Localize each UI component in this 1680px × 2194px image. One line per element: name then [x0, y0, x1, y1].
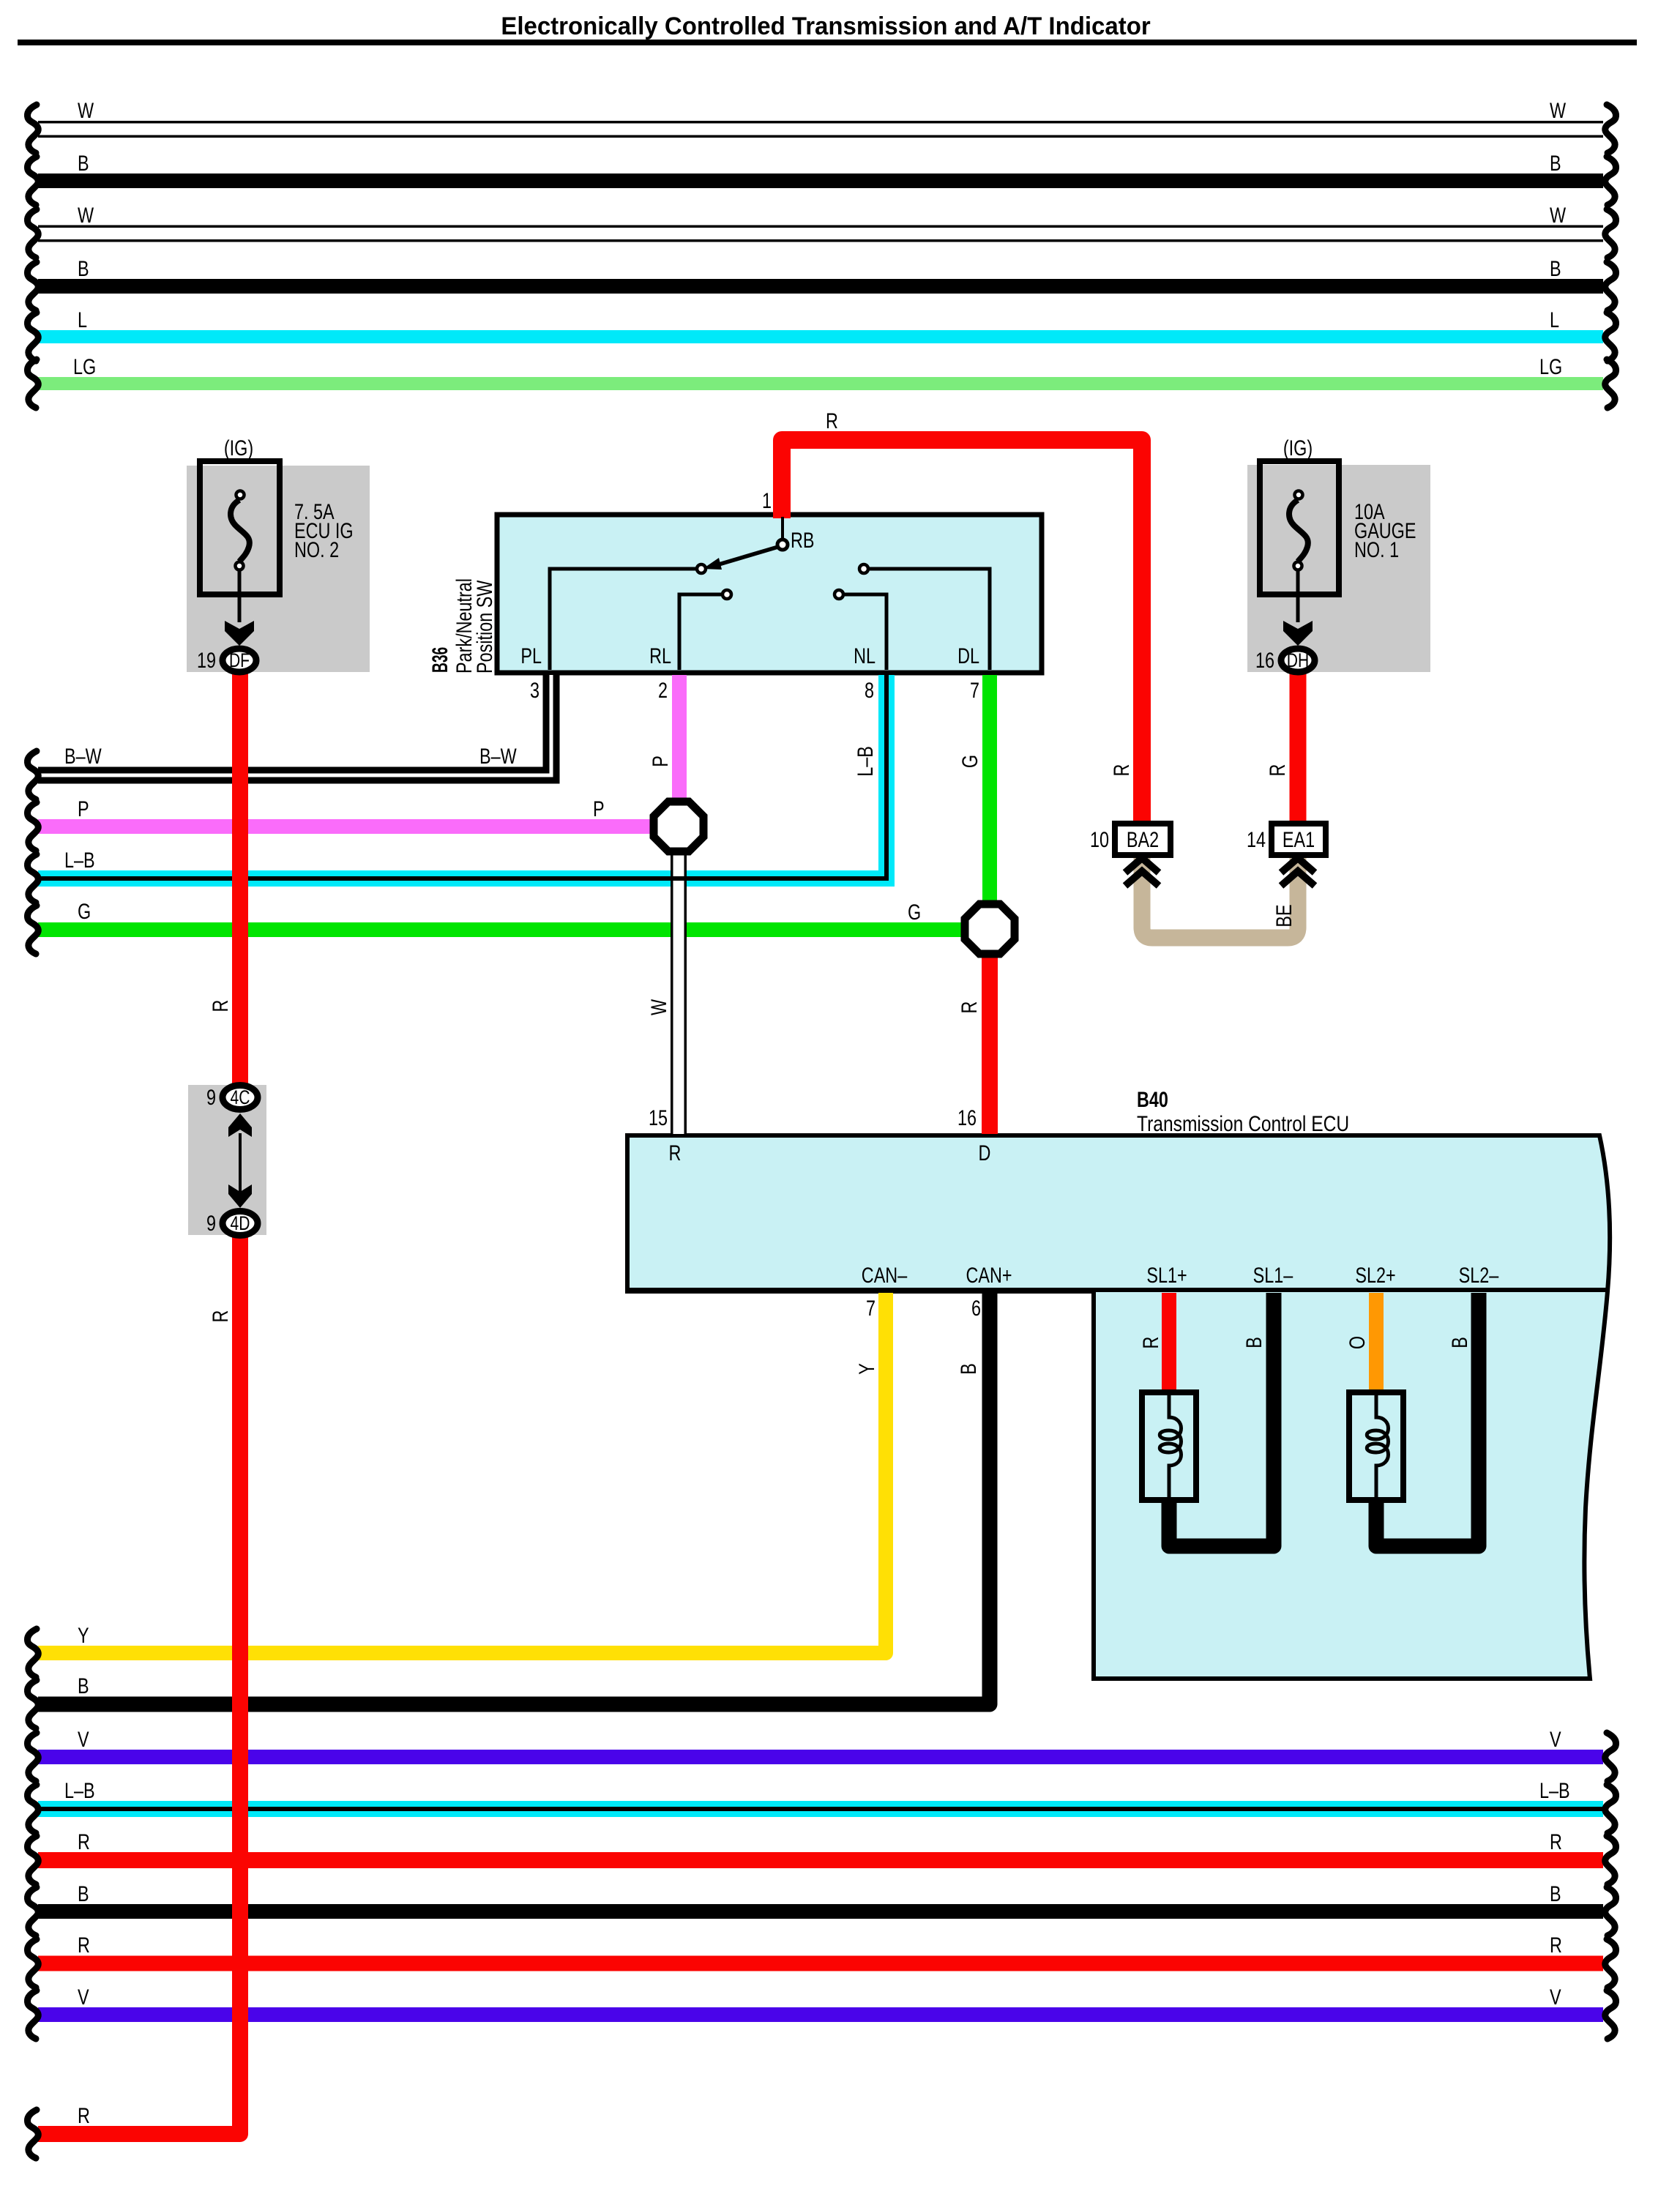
- svg-text:CAN+: CAN+: [966, 1263, 1012, 1287]
- svg-text:W: W: [78, 98, 94, 122]
- svg-text:R: R: [1550, 1933, 1562, 1957]
- svg-text:L–B: L–B: [853, 746, 877, 777]
- svg-text:V: V: [78, 1727, 89, 1751]
- svg-text:19: 19: [197, 648, 216, 672]
- svg-text:B: B: [78, 256, 89, 280]
- svg-text:14: 14: [1247, 827, 1266, 851]
- svg-text:Position SW: Position SW: [472, 580, 496, 674]
- svg-text:V: V: [78, 1985, 89, 2009]
- svg-text:Y: Y: [854, 1363, 878, 1375]
- svg-text:SL1–: SL1–: [1253, 1263, 1293, 1287]
- svg-text:(IG): (IG): [224, 436, 253, 460]
- svg-text:NL: NL: [854, 643, 876, 668]
- svg-text:O: O: [1345, 1336, 1369, 1349]
- svg-text:BA2: BA2: [1127, 827, 1159, 851]
- svg-text:L–B: L–B: [64, 1778, 95, 1802]
- svg-text:R: R: [78, 2103, 90, 2127]
- svg-text:10: 10: [1090, 827, 1109, 851]
- svg-text:NO. 1: NO. 1: [1354, 537, 1399, 561]
- svg-text:7: 7: [970, 678, 979, 702]
- svg-text:B: B: [1550, 151, 1561, 175]
- svg-text:2: 2: [658, 678, 668, 702]
- svg-text:4D: 4D: [231, 1213, 250, 1235]
- svg-text:RL: RL: [649, 643, 671, 668]
- svg-text:P: P: [648, 755, 672, 767]
- svg-text:B: B: [78, 151, 89, 175]
- svg-text:9: 9: [206, 1085, 216, 1109]
- svg-text:R: R: [1265, 764, 1289, 777]
- svg-text:W: W: [1550, 203, 1567, 227]
- svg-text:DH: DH: [1287, 650, 1309, 672]
- svg-text:R: R: [669, 1141, 682, 1165]
- svg-text:P: P: [593, 796, 605, 821]
- svg-text:3: 3: [530, 678, 540, 702]
- svg-text:Y: Y: [78, 1623, 89, 1647]
- svg-text:16: 16: [957, 1105, 977, 1130]
- svg-text:R: R: [208, 1000, 232, 1012]
- svg-text:RB: RB: [791, 528, 814, 552]
- svg-text:L: L: [1550, 307, 1559, 332]
- svg-text:B: B: [1242, 1337, 1266, 1348]
- svg-text:EA1: EA1: [1283, 827, 1315, 851]
- svg-text:1: 1: [762, 488, 772, 512]
- svg-text:V: V: [1550, 1985, 1561, 2009]
- svg-text:PL: PL: [520, 643, 542, 668]
- svg-text:SL2–: SL2–: [1459, 1263, 1499, 1287]
- svg-text:9: 9: [206, 1211, 216, 1235]
- svg-text:15: 15: [649, 1105, 668, 1130]
- svg-text:B: B: [78, 1674, 89, 1698]
- svg-text:R: R: [208, 1310, 232, 1323]
- svg-text:DL: DL: [957, 643, 979, 668]
- svg-text:B–W: B–W: [479, 744, 517, 768]
- svg-text:G: G: [908, 900, 921, 924]
- svg-text:L–B: L–B: [64, 848, 95, 872]
- svg-text:16: 16: [1255, 648, 1274, 672]
- svg-text:V: V: [1550, 1727, 1561, 1751]
- svg-text:B36: B36: [428, 647, 452, 673]
- svg-text:D: D: [979, 1141, 991, 1165]
- svg-text:L: L: [78, 307, 87, 332]
- svg-text:Electronically Controlled Tran: Electronically Controlled Transmission a…: [501, 13, 1150, 41]
- svg-text:B: B: [956, 1363, 980, 1375]
- svg-text:LG: LG: [73, 354, 96, 378]
- svg-text:SL1+: SL1+: [1146, 1263, 1187, 1287]
- svg-text:W: W: [1550, 98, 1567, 122]
- svg-text:P: P: [78, 796, 89, 821]
- svg-text:G: G: [78, 899, 91, 923]
- svg-text:B40: B40: [1137, 1087, 1168, 1111]
- svg-text:W: W: [646, 999, 671, 1015]
- svg-text:R: R: [1138, 1337, 1162, 1349]
- svg-text:B: B: [1550, 1881, 1561, 1906]
- svg-text:R: R: [1109, 764, 1133, 777]
- svg-text:R: R: [826, 408, 838, 433]
- svg-text:L–B: L–B: [1539, 1778, 1570, 1802]
- svg-text:8: 8: [865, 678, 874, 702]
- svg-text:CAN–: CAN–: [862, 1263, 907, 1287]
- svg-text:DF: DF: [229, 650, 250, 672]
- svg-text:G: G: [957, 755, 982, 768]
- svg-text:6: 6: [971, 1296, 981, 1320]
- svg-text:BE: BE: [1272, 904, 1296, 927]
- svg-text:LG: LG: [1539, 354, 1562, 378]
- svg-text:R: R: [957, 1001, 981, 1014]
- svg-text:R: R: [1550, 1829, 1562, 1854]
- svg-text:B: B: [1447, 1337, 1471, 1348]
- svg-text:R: R: [78, 1829, 90, 1854]
- svg-text:B: B: [78, 1881, 89, 1906]
- svg-text:(IG): (IG): [1283, 436, 1313, 460]
- svg-text:7: 7: [866, 1296, 876, 1320]
- svg-text:Transmission Control ECU: Transmission Control ECU: [1137, 1111, 1349, 1136]
- svg-text:B: B: [1550, 256, 1561, 280]
- svg-text:B–W: B–W: [64, 744, 102, 768]
- svg-text:SL2+: SL2+: [1355, 1263, 1395, 1287]
- svg-text:NO. 2: NO. 2: [294, 537, 339, 561]
- svg-text:R: R: [78, 1933, 90, 1957]
- svg-text:W: W: [78, 203, 94, 227]
- svg-text:4C: 4C: [231, 1087, 250, 1109]
